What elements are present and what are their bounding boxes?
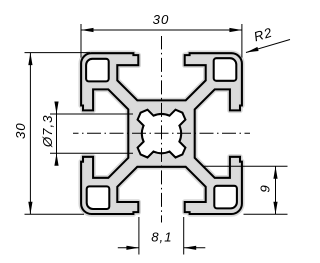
dim right 9: top extension line <box>203 165 288 167</box>
svg-text:9: 9 <box>258 184 273 192</box>
centerline horizontal <box>73 132 250 134</box>
centerline vertical <box>161 36 163 223</box>
dim dia 7,3: top extension line <box>50 113 133 115</box>
dim left 30: dimension line <box>29 53 31 215</box>
dim left 30: bottom extension line <box>25 213 85 215</box>
dim bottom 8,1: right extension line <box>183 217 185 255</box>
dim right 9: bottom extension line <box>244 213 288 215</box>
dim bottom 8,1: dimension line right segment <box>184 247 206 249</box>
dim dia 7,3: bottom extension line <box>50 152 133 154</box>
dim top 30: right extension line <box>241 24 243 58</box>
dim right 9: dimension line <box>275 166 277 214</box>
svg-text:30: 30 <box>153 12 170 27</box>
dim bottom 8,1: left extension line <box>138 217 140 255</box>
dim top 30: left extension line <box>80 24 82 58</box>
radius R2: leader line <box>246 40 290 53</box>
svg-text:8,1: 8,1 <box>151 229 172 244</box>
dim bottom 8,1: dimension line left segment <box>118 247 139 249</box>
svg-text:Ø7,3: Ø7,3 <box>40 115 55 149</box>
dim top 30: dimension line <box>81 29 242 31</box>
corner cavity holes + center bore (white) <box>86 58 237 209</box>
dim left 30: top extension line <box>25 52 91 54</box>
svg-text:30: 30 <box>13 122 28 139</box>
dim dia 7,3: dimension line <box>56 102 58 166</box>
black outline of profile and holes <box>81 53 242 214</box>
profile body: 30x30 aluminium extrusion silhouette (gray halo + fill) <box>81 53 242 214</box>
